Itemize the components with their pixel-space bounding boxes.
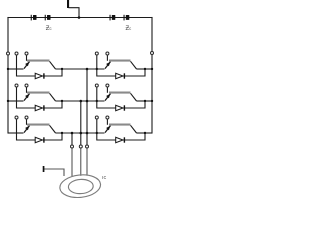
svg-text:Ƶc: Ƶc xyxy=(46,26,52,32)
svg-text:Ƶc: Ƶc xyxy=(126,26,132,32)
svg-text:ıc: ıc xyxy=(102,175,107,181)
